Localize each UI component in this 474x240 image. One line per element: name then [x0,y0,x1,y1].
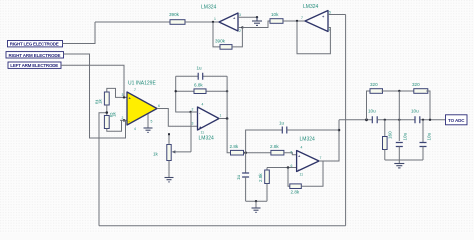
wire: gain resistor top to +input node [107,88,127,97]
node: junction left of R6 [175,90,177,92]
wire: top rail left segment to R1 [95,21,170,23]
wire: right leg electrode to top rail [63,22,96,44]
node: electrode label RIGHT LEG ELECTRODE [8,41,63,47]
op-amp U1 INA129E instrumentation amplifier [122,81,161,132]
wire: U5 -input node wiring [267,167,297,169]
capacitor C4 10u (series) [368,109,377,124]
resistor R13 160 (shunt) [383,120,393,160]
wire: main line to ADC [420,119,446,121]
wire: bottom rail [99,225,346,227]
op-amp U5 LM324 (points right) [291,137,322,177]
svg-text:11: 11 [300,173,304,177]
svg-text:1k: 1k [153,152,159,157]
op-amp U2 LM324 (right-leg drive, points left) [201,5,241,34]
wire: tall riser down to bottom rail [345,15,347,226]
svg-text:160: 160 [388,131,393,139]
ground (U2 +input) [252,17,262,25]
resistor R5 gain (lower) [104,111,116,128]
resistor R1 390k (top rail) [169,12,185,24]
svg-text:LM324: LM324 [303,4,319,10]
node: electrode label RIGHT ARM ELECTRODE [6,52,64,58]
capacitor C2 1u (shunt at middle node) [236,153,249,202]
wire: R12 right riser to main line [426,91,430,120]
wire: filter top rail riser left [367,91,371,120]
svg-text:4: 4 [301,146,303,150]
capacitor C5 10u (series) [411,109,420,124]
wire: ground stub [255,201,257,208]
svg-text:5: 5 [329,11,331,15]
node: junction U5 -input [287,166,290,169]
svg-text:LEFT ARM ELECTRODE: LEFT ARM ELECTRODE [10,63,58,68]
node: junction shunt cap B tap [422,119,424,121]
wire: INA ref pin to ground [147,114,149,128]
resistor R9 2.8k (shunt at -input) [258,168,269,202]
resistor R7 2.8k (series) [230,144,244,155]
wire: R1 to op-amp U2 output [185,21,219,23]
svg-text:6.8k: 6.8k [194,83,203,88]
capacitor C6 10u (shunt) [396,132,408,160]
svg-text:11: 11 [201,131,205,135]
resistor R2 390k (U2 feedback) [215,39,232,50]
svg-text:6: 6 [291,164,293,168]
wire: feedback cap rail [176,75,227,77]
node: junction top rail center [398,90,400,92]
resistor R12 320 (top, parallel cap) [412,82,428,93]
svg-text:7: 7 [320,156,322,160]
svg-text:3: 3 [192,122,194,126]
wire: R7 to R8 [244,152,271,154]
node: junction at INA -input [123,119,126,122]
svg-text:10u: 10u [403,132,408,140]
wire: U4 output down to filter input resistor [227,119,230,153]
node: junction right of R6 [226,90,228,92]
svg-text:1u: 1u [279,121,285,126]
wire: R8 to U5 +input [284,153,297,155]
op-amp U3 LM324 (buffer, points left) [301,4,331,32]
node: TO ADC output label [446,115,468,125]
node: junction U4 output [226,117,229,120]
wire: feedback right vertical to output [226,76,228,118]
svg-text:R4: R4 [95,100,99,104]
wire: ground stub (filter) [398,160,400,164]
potentiometer RV1 1k [153,133,191,160]
resistor R3 10k [270,12,283,23]
node: junction U4 -input [189,111,191,113]
svg-text:1: 1 [220,114,222,118]
wire: U5 feedback resistor path [288,168,290,187]
wire: U3 +input to tall riser [328,14,346,16]
wire: left arm electrode to INA +input [61,65,127,97]
node: junction U3 output [296,20,298,22]
svg-text:2.8k: 2.8k [270,144,279,149]
wire: U2 -input stub [238,27,242,29]
svg-text:3: 3 [239,13,241,17]
wire: center riser [398,91,400,141]
resistor R11 320 (top, parallel cap) [370,82,383,93]
node: junction at U2 +input ground [256,16,258,18]
wire: right arm electrode to INA -input (outer loop) [64,54,126,138]
wire: feedback R2 right to U2 -input [232,28,242,47]
svg-text:2: 2 [122,116,124,120]
wire: feedback riser left (output to R2) [213,22,220,47]
node: electrode label LEFT ARM ELECTRODE [8,62,61,68]
svg-text:390k: 390k [215,39,226,44]
wire: U3 feedback loop output to -input [297,21,330,54]
svg-text:390k: 390k [169,12,180,17]
resistor R4 gain (upper) [95,92,109,105]
svg-text:1u: 1u [197,66,203,71]
node: junction shunt resistor tap [384,119,386,121]
svg-text:LM324: LM324 [201,5,217,11]
capacitor C1 1u (U4 feedback) [197,66,203,80]
svg-text:2.8k: 2.8k [230,144,239,149]
node: junction middle node [244,151,247,154]
wire: INA -input pin stub [120,119,127,121]
wire: pot wiper riser to U4 -input node [190,112,192,152]
wire: U4 -input stub [191,111,198,113]
wire: U5 output to riser [319,120,339,161]
svg-text:320: 320 [412,82,420,87]
svg-text:2: 2 [192,108,194,112]
node: junction center tap [106,111,109,114]
resistor R10 2.8k (U5 feedback) [290,184,302,195]
svg-text:R5: R5 [110,113,114,117]
svg-text:U1 INA129E: U1 INA129E [128,81,156,87]
node: junction output node [429,119,431,121]
resistor R6 6.8k (U4 feedback) [194,83,206,94]
svg-text:7: 7 [301,16,303,20]
wire: R3 to U3 output [283,20,305,22]
svg-text:320: 320 [370,82,378,87]
node: junction ground rail [255,200,257,202]
svg-text:2.8k: 2.8k [291,190,300,195]
node: junction at INA +input [123,96,125,98]
wire: pot bottom to ground [168,161,170,178]
capacitor C7 10u (shunt) [420,120,432,160]
node: junction center riser tap [398,119,400,121]
wire: U2 -input to R3 10k [242,21,270,28]
wire: feedback right riser to output [301,161,323,186]
svg-text:3: 3 [122,93,124,97]
wire: gain resistor bottom to -input node (inner L) [107,120,122,131]
node: junction feedback cap tap [338,129,341,132]
svg-text:10u: 10u [427,132,432,140]
node: junction filter input riser [365,118,368,121]
svg-text:4: 4 [134,127,136,131]
svg-text:10u: 10u [411,109,419,114]
wire: U4 output stub [219,118,227,120]
wire: feedback resistor rail [176,90,227,92]
op-amp U4 LM324 (gain stage, points right) [192,103,222,142]
svg-text:2.8k: 2.8k [258,173,263,182]
wire: main line between caps [377,119,415,121]
wire: U2 +input to ground node [238,16,257,18]
svg-text:LM324: LM324 [300,137,316,143]
svg-text:10u: 10u [368,109,376,114]
svg-text:4: 4 [202,103,204,107]
ground (pot) [165,178,174,182]
node: junction U2 -input [241,26,243,28]
ground (output filter) [394,164,404,168]
svg-text:TO ADC: TO ADC [448,118,465,123]
wire: feedback left vertical [176,76,191,112]
wire: main line to output filter [339,119,372,121]
svg-text:10k: 10k [271,12,279,17]
svg-text:2: 2 [239,29,241,33]
wire: top rail between resistors [382,90,414,92]
svg-text:7: 7 [134,88,136,92]
node: junction feedback tap on output wire [212,21,214,23]
svg-text:6: 6 [158,104,160,108]
svg-text:1u: 1u [236,174,241,180]
resistor R8 2.8k (series) [270,144,284,155]
wire: shunt bottom rail (filter) [385,159,423,161]
svg-text:RIGHT LEG ELECTRODE: RIGHT LEG ELECTRODE [10,42,59,47]
capacitor C3 1u (U5 feedback) [246,121,339,153]
svg-text:1: 1 [214,17,216,21]
svg-text:RIGHT ARM ELECTRODE: RIGHT ARM ELECTRODE [9,53,61,58]
wire: center-tap riser up left side [99,113,107,226]
wire: INA output to U4 +input [157,109,198,127]
wire: shunt bottom rail [246,200,267,202]
svg-text:5: 5 [291,151,293,155]
ground (filter stage) [252,208,261,212]
svg-text:LM324: LM324 [199,136,215,142]
svg-text:5: 5 [151,120,153,124]
wire: between gain resistors [106,105,108,116]
ground (INA ref) [144,128,153,132]
